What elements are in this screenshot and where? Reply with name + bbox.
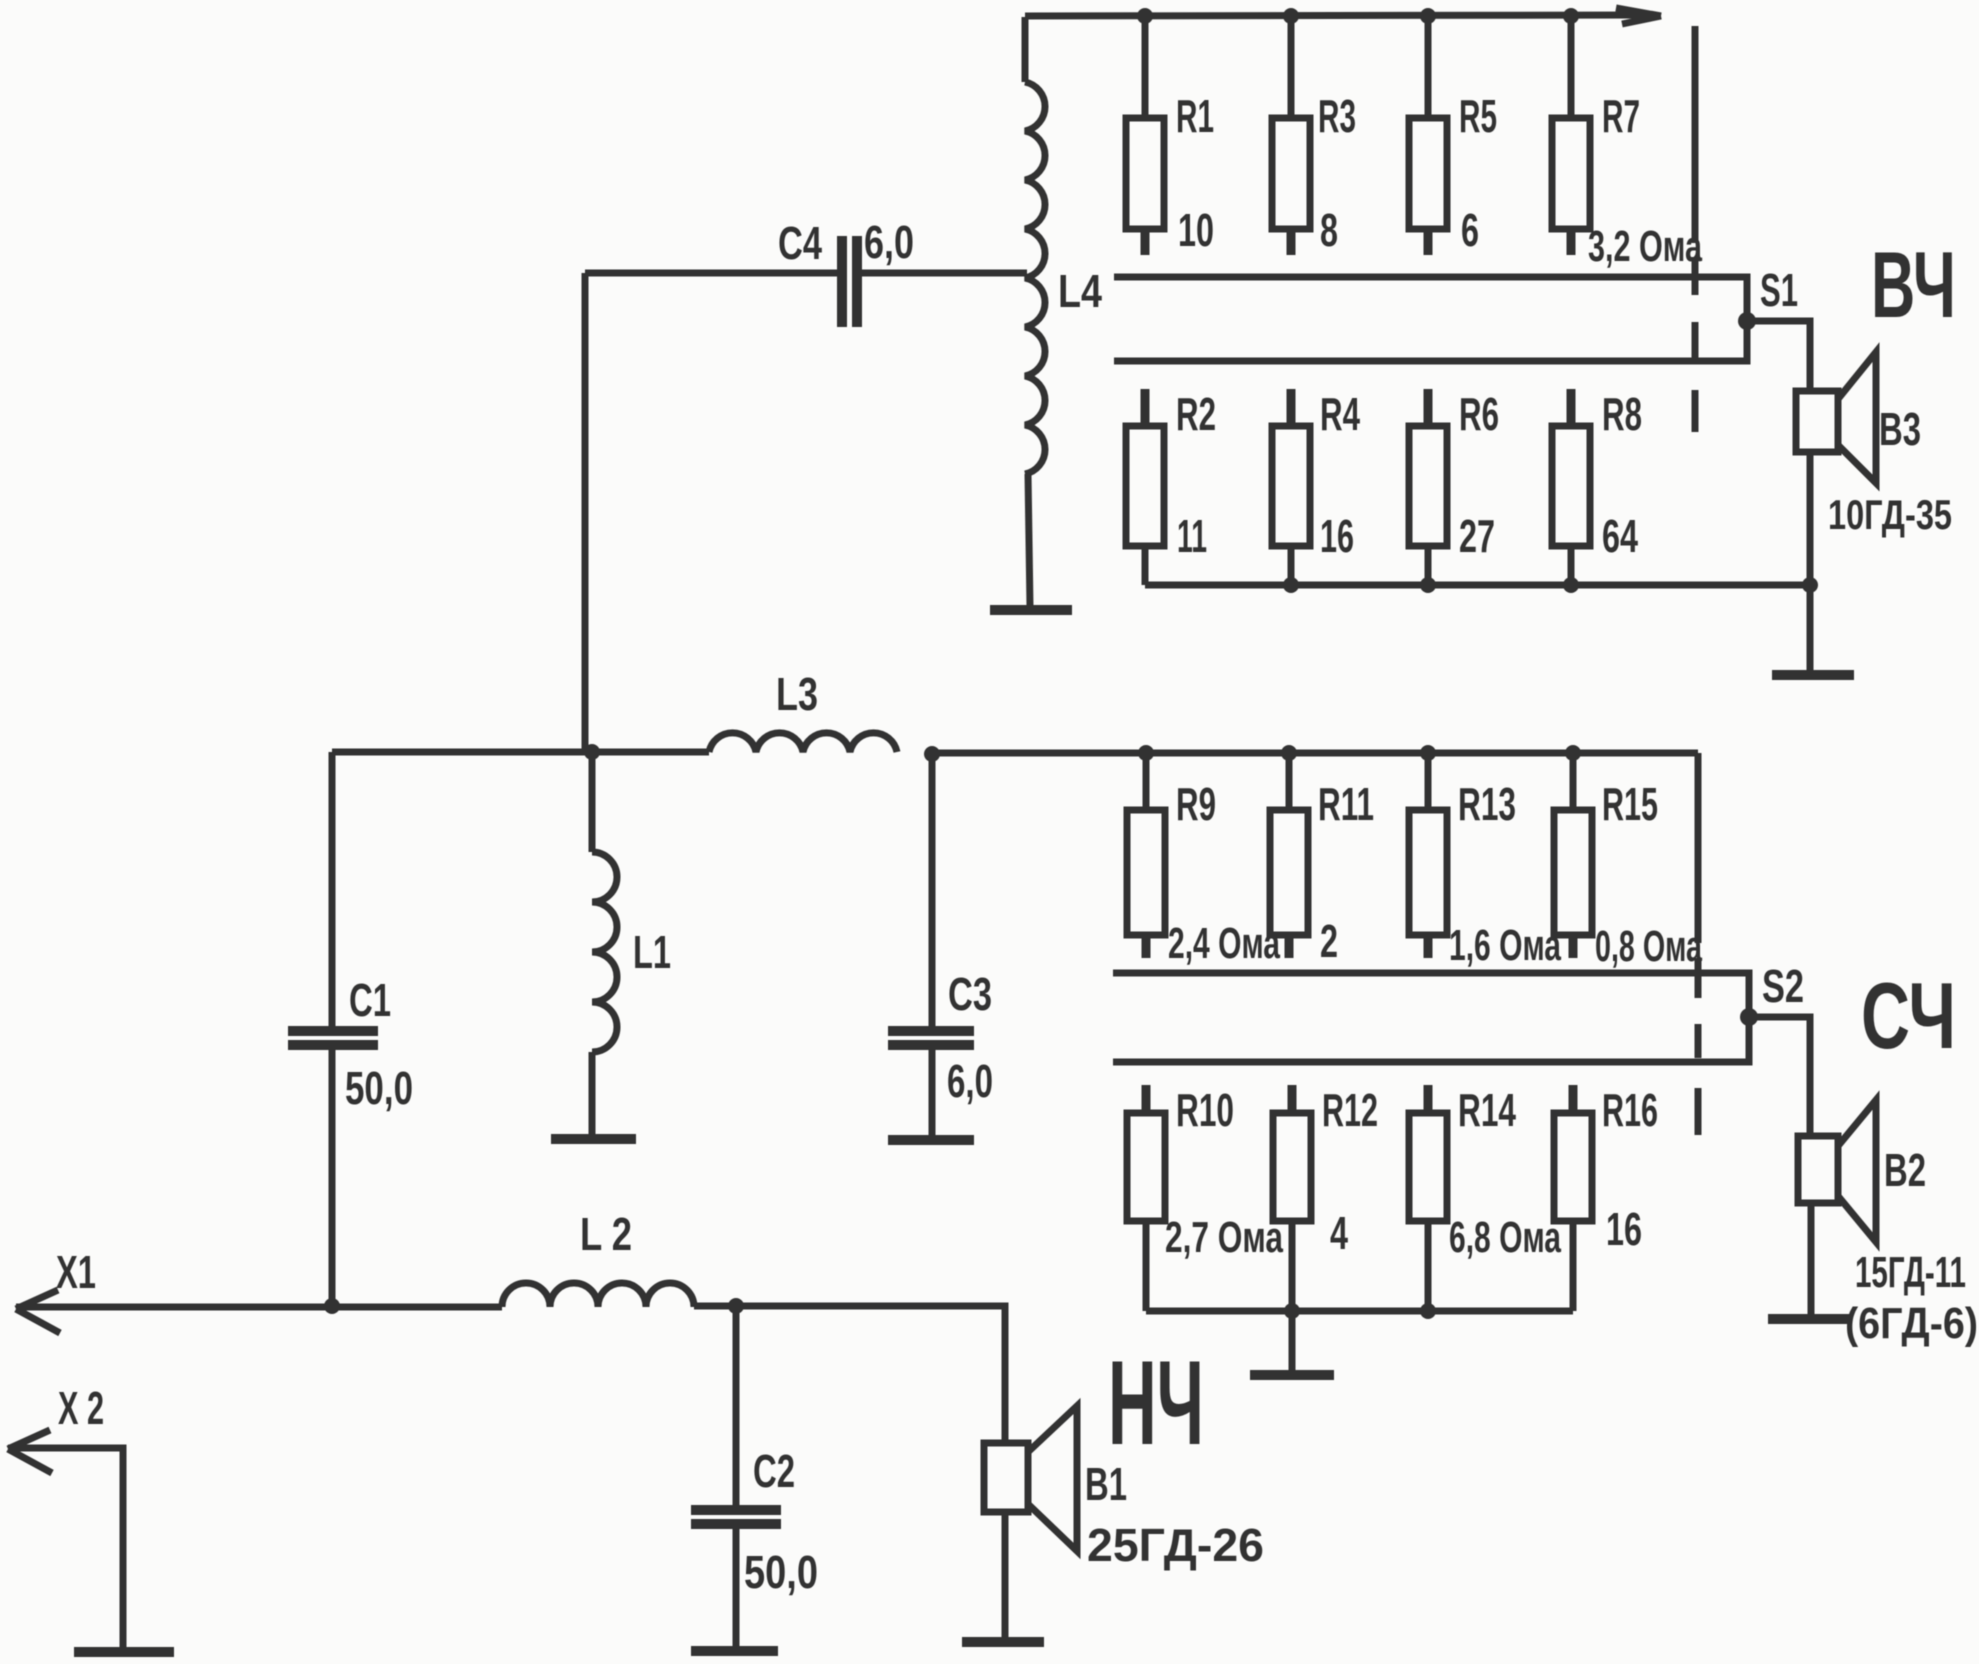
label R16 bbox=[1602, 1084, 1658, 1136]
value B1 25ГД-26 bbox=[1087, 1519, 1264, 1571]
wire C4 branch vertical bbox=[582, 273, 589, 752]
value R9 2,4 Ома bbox=[1168, 919, 1280, 968]
value R4 16 bbox=[1320, 510, 1354, 562]
svg-text:50,0: 50,0 bbox=[744, 1546, 818, 1598]
node junction mid rail / L1 / C4 branch bbox=[584, 744, 600, 760]
label R7 bbox=[1602, 90, 1640, 142]
resistor R7 bbox=[1552, 16, 1590, 255]
label R13 bbox=[1458, 778, 1516, 830]
switch S2 dashed actuator bbox=[1695, 958, 1702, 1135]
wire bus S2 lower bbox=[1113, 1021, 1749, 1062]
value R3 8 bbox=[1320, 204, 1338, 256]
svg-text:L4: L4 bbox=[1058, 265, 1102, 317]
node junction mid rail R11 bbox=[1281, 745, 1297, 761]
ground C2 bbox=[691, 1646, 778, 1656]
svg-text:(6ГД-6): (6ГД-6) bbox=[1845, 1299, 1978, 1348]
wire X2 to ground bbox=[8, 1448, 123, 1650]
label X2 bbox=[58, 1382, 104, 1434]
label C3 bbox=[948, 968, 992, 1020]
svg-text:0,8 Ома: 0,8 Ома bbox=[1595, 922, 1702, 971]
svg-text:В3: В3 bbox=[1879, 403, 1921, 455]
svg-text:L 2: L 2 bbox=[580, 1208, 632, 1260]
value R15 0,8 Ома bbox=[1595, 922, 1702, 971]
svg-text:16: 16 bbox=[1320, 510, 1354, 562]
label C1 bbox=[349, 974, 391, 1026]
capacitor C1 bbox=[288, 752, 378, 1307]
wire S1 to B3 bbox=[1747, 321, 1810, 392]
svg-text:СЧ: СЧ bbox=[1861, 963, 1956, 1068]
label B1 bbox=[1085, 1458, 1127, 1510]
speaker B2 bbox=[1798, 1100, 1876, 1320]
label C2 bbox=[753, 1445, 795, 1497]
speaker B3 bbox=[1796, 352, 1876, 672]
label R4 bbox=[1320, 388, 1360, 440]
svg-text:R11: R11 bbox=[1318, 778, 1374, 830]
resistor R5 bbox=[1409, 16, 1447, 255]
value B2 15ГД-11 bbox=[1855, 1248, 1966, 1297]
wire mid rail right bbox=[932, 750, 1698, 757]
svg-text:4: 4 bbox=[1330, 1207, 1348, 1259]
value R7 3,2 Ома bbox=[1588, 222, 1702, 271]
svg-text:В2: В2 bbox=[1884, 1144, 1926, 1196]
node junction ВЧ rail R8 bbox=[1563, 577, 1579, 593]
value R10 2,7 Ома bbox=[1165, 1213, 1283, 1262]
svg-text:2,7 Ома: 2,7 Ома bbox=[1165, 1213, 1283, 1262]
resistor R3 bbox=[1272, 16, 1310, 255]
ground B2 bbox=[1768, 1314, 1852, 1324]
svg-text:C3: C3 bbox=[948, 968, 992, 1020]
label L1 bbox=[633, 926, 671, 978]
speaker B1 bbox=[984, 1406, 1077, 1639]
wire C1 node to L2 bbox=[332, 1304, 502, 1311]
label R8 bbox=[1602, 388, 1642, 440]
wire mid rail left bbox=[332, 749, 592, 756]
svg-text:27: 27 bbox=[1459, 510, 1495, 562]
wire top rail bbox=[1025, 15, 1648, 16]
label R5 bbox=[1459, 90, 1497, 142]
label R10 bbox=[1176, 1084, 1234, 1136]
svg-text:64: 64 bbox=[1602, 510, 1638, 562]
svg-text:6,0: 6,0 bbox=[947, 1055, 993, 1107]
inductor L3 bbox=[709, 733, 897, 752]
inductor L1 bbox=[592, 752, 617, 1137]
value C2 50,0 bbox=[744, 1546, 818, 1598]
svg-text:10: 10 bbox=[1178, 204, 1214, 256]
label L2 bbox=[580, 1208, 632, 1260]
node junction ВЧ rail R6 bbox=[1420, 577, 1436, 593]
svg-text:16: 16 bbox=[1606, 1203, 1642, 1255]
svg-text:S1: S1 bbox=[1760, 264, 1798, 316]
svg-text:R6: R6 bbox=[1459, 388, 1499, 440]
terminal X1 arrow bbox=[16, 1290, 60, 1333]
label L4 bbox=[1058, 265, 1102, 317]
inductor L4 tapped coil bbox=[1025, 17, 1045, 607]
svg-text:L1: L1 bbox=[633, 926, 671, 978]
value R1 10 bbox=[1178, 204, 1214, 256]
label R6 bbox=[1459, 388, 1499, 440]
label R3 bbox=[1318, 90, 1356, 142]
svg-text:R5: R5 bbox=[1459, 90, 1497, 142]
svg-text:2,4 Ома: 2,4 Ома bbox=[1168, 919, 1280, 968]
ground B1 bbox=[962, 1637, 1044, 1647]
label СЧ section bbox=[1861, 963, 1956, 1068]
label ВЧ section bbox=[1871, 232, 1956, 337]
svg-text:X 2: X 2 bbox=[58, 1382, 104, 1434]
arrow top rail bbox=[1616, 8, 1661, 24]
svg-text:R12: R12 bbox=[1322, 1084, 1378, 1136]
label S1 bbox=[1760, 264, 1798, 316]
terminal X2 arrow bbox=[8, 1430, 52, 1473]
label S2 bbox=[1762, 960, 1804, 1012]
label R11 bbox=[1318, 778, 1374, 830]
resistor R4 bbox=[1272, 389, 1310, 585]
node junction L2/C2 bbox=[728, 1298, 744, 1314]
value R11 2 bbox=[1320, 915, 1338, 967]
svg-text:R16: R16 bbox=[1602, 1084, 1658, 1136]
svg-text:6: 6 bbox=[1461, 204, 1479, 256]
wire L2 to B1 corner bbox=[694, 1306, 1005, 1443]
capacitor C3 bbox=[888, 753, 974, 1138]
node junction X1/C1 bbox=[324, 1298, 340, 1314]
resistor R13 bbox=[1409, 753, 1447, 958]
resistor R8 bbox=[1552, 389, 1590, 585]
node S1 common bbox=[1738, 312, 1756, 330]
value R6 27 bbox=[1459, 510, 1495, 562]
svg-text:10ГД-35: 10ГД-35 bbox=[1828, 491, 1952, 538]
value C1 50,0 bbox=[345, 1062, 413, 1114]
node junction mid rail R13 bbox=[1420, 745, 1436, 761]
node junction ВЧ rail R4 bbox=[1283, 577, 1299, 593]
wire bus S1 lower bbox=[1114, 325, 1747, 361]
switch S1 dashed actuator bbox=[1692, 26, 1699, 432]
resistor R10 bbox=[1127, 1085, 1165, 1311]
svg-text:R9: R9 bbox=[1176, 778, 1216, 830]
node junction top rail R3 bbox=[1283, 8, 1299, 24]
capacitor C2 bbox=[691, 1306, 781, 1649]
svg-text:R7: R7 bbox=[1602, 90, 1640, 142]
node junction mid rail R9 bbox=[1138, 745, 1154, 761]
label R12 bbox=[1322, 1084, 1378, 1136]
label B2 bbox=[1884, 1144, 1926, 1196]
svg-text:НЧ: НЧ bbox=[1108, 1336, 1204, 1470]
value C4 6,0 bbox=[864, 216, 914, 268]
svg-text:L3: L3 bbox=[776, 668, 818, 720]
label C4 bbox=[778, 217, 822, 269]
resistor R15 bbox=[1554, 753, 1592, 958]
value B2 6ГД-6 bbox=[1845, 1299, 1978, 1348]
svg-text:6,0: 6,0 bbox=[864, 216, 914, 268]
svg-text:15ГД-11: 15ГД-11 bbox=[1855, 1248, 1966, 1297]
svg-text:1,6 Ома: 1,6 Ома bbox=[1449, 921, 1561, 970]
value R5 6 bbox=[1461, 204, 1479, 256]
wire СЧ bank ground stub bbox=[1289, 1311, 1296, 1372]
node junction mid rail R15 bbox=[1565, 745, 1581, 761]
node junction СЧ rail R14 bbox=[1420, 1303, 1436, 1319]
node junction top rail R5 bbox=[1420, 8, 1436, 24]
wire bottom rail СЧ bank bbox=[1146, 1308, 1573, 1315]
value R2 11 bbox=[1177, 510, 1207, 562]
svg-text:R1: R1 bbox=[1176, 90, 1214, 142]
svg-text:R4: R4 bbox=[1320, 388, 1360, 440]
label X1 bbox=[56, 1246, 96, 1298]
label B3 bbox=[1879, 403, 1921, 455]
resistor R2 bbox=[1126, 389, 1164, 585]
wire X1 input line bbox=[16, 1304, 332, 1311]
svg-text:25ГД-26: 25ГД-26 bbox=[1087, 1519, 1264, 1571]
svg-text:S2: S2 bbox=[1762, 960, 1804, 1012]
ground B3 bbox=[1772, 670, 1854, 680]
node junction top rail R7 bbox=[1563, 8, 1579, 24]
label R9 bbox=[1176, 778, 1216, 830]
value R13 1,6 Ома bbox=[1449, 921, 1561, 970]
svg-text:R13: R13 bbox=[1458, 778, 1516, 830]
svg-text:2: 2 bbox=[1320, 915, 1338, 967]
resistor R6 bbox=[1409, 389, 1447, 585]
value R8 64 bbox=[1602, 510, 1638, 562]
node junction L3 / C3 bbox=[924, 746, 940, 762]
value R14 6,8 Ома bbox=[1449, 1213, 1561, 1262]
svg-text:R10: R10 bbox=[1176, 1084, 1234, 1136]
wire bus S2 upper bbox=[1113, 973, 1749, 1013]
resistor R1 bbox=[1126, 16, 1164, 255]
svg-text:ВЧ: ВЧ bbox=[1871, 232, 1956, 337]
svg-text:C2: C2 bbox=[753, 1445, 795, 1497]
value R16 16 bbox=[1606, 1203, 1642, 1255]
node junction СЧ rail R12 bbox=[1284, 1303, 1300, 1319]
ground L4 bbox=[990, 605, 1072, 615]
svg-text:11: 11 bbox=[1177, 510, 1207, 562]
svg-text:8: 8 bbox=[1320, 204, 1338, 256]
value R12 4 bbox=[1330, 1207, 1348, 1259]
value C3 6,0 bbox=[947, 1055, 993, 1107]
label R1 bbox=[1176, 90, 1214, 142]
svg-text:C4: C4 bbox=[778, 217, 822, 269]
resistor R9 bbox=[1127, 753, 1165, 958]
wire S2 ladder right vertical bbox=[1695, 753, 1702, 943]
ground X2 bbox=[74, 1647, 174, 1657]
node S2 common bbox=[1740, 1008, 1758, 1026]
svg-text:X1: X1 bbox=[56, 1246, 96, 1298]
svg-text:6,8 Ома: 6,8 Ома bbox=[1449, 1213, 1561, 1262]
wire bus S1 upper bbox=[1114, 277, 1747, 317]
wire S2 to B2 bbox=[1749, 1017, 1810, 1136]
resistor R16 bbox=[1554, 1085, 1592, 1311]
ground L1 bbox=[551, 1134, 636, 1144]
node junction top rail R1 bbox=[1137, 8, 1153, 24]
label НЧ section bbox=[1108, 1336, 1204, 1470]
value B3 10ГД-35 bbox=[1828, 491, 1952, 538]
inductor L2 bbox=[502, 1283, 694, 1307]
label R2 bbox=[1176, 388, 1216, 440]
svg-text:3,2 Ома: 3,2 Ома bbox=[1588, 222, 1702, 271]
resistor R14 bbox=[1409, 1085, 1447, 1311]
ground C3 bbox=[888, 1135, 974, 1145]
svg-text:R8: R8 bbox=[1602, 388, 1642, 440]
svg-text:R3: R3 bbox=[1318, 90, 1356, 142]
wire bottom rail ВЧ bank bbox=[1145, 582, 1810, 589]
label R14 bbox=[1458, 1084, 1516, 1136]
wire mid rail to L3 bbox=[592, 749, 709, 756]
svg-text:R15: R15 bbox=[1602, 778, 1658, 830]
label L3 bbox=[776, 668, 818, 720]
resistor R12 bbox=[1273, 1085, 1311, 1311]
svg-text:50,0: 50,0 bbox=[345, 1062, 413, 1114]
svg-text:R2: R2 bbox=[1176, 388, 1216, 440]
capacitor C4 bbox=[585, 236, 1027, 327]
resistor R11 bbox=[1270, 753, 1308, 958]
svg-text:R14: R14 bbox=[1458, 1084, 1516, 1136]
ground СЧ bank bbox=[1250, 1370, 1334, 1380]
label R15 bbox=[1602, 778, 1658, 830]
svg-text:C1: C1 bbox=[349, 974, 391, 1026]
node junction ВЧ rail B3 bbox=[1802, 577, 1818, 593]
